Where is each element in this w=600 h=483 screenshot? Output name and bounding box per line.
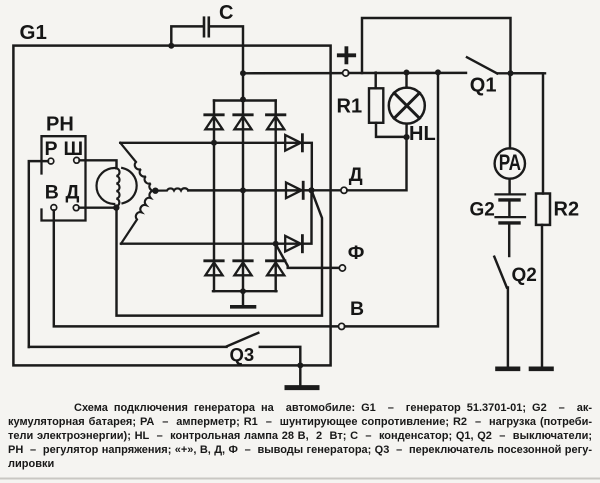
- wire Q3 right segment to ground stem: [260, 347, 301, 366]
- wire to D terminal: [312, 189, 341, 191]
- diode VD6 (horizontal bottom): [285, 190, 311, 252]
- diode VD7 (down row left): [205, 261, 223, 276]
- phase 2 line: [189, 189, 303, 191]
- battery G2 plate short bottom: [500, 221, 519, 224]
- junction Q3 ground on box bottom: [297, 362, 303, 368]
- wire battery to Q2: [508, 225, 510, 256]
- svg-text:Q3: Q3: [230, 344, 255, 365]
- stator winding phase 3 (diagonal coil): [121, 191, 155, 244]
- junction lamp bottom: [403, 134, 409, 140]
- junction at cap left on box top: [168, 43, 174, 49]
- capacitor C plates: [203, 18, 206, 37]
- junction + wire tee: [240, 70, 246, 76]
- svg-text:РА: РА: [499, 151, 521, 176]
- wire plus terminal to R1/HL branch: [349, 72, 466, 75]
- wire R terminal to left and down to Q3: [29, 161, 48, 347]
- svg-text:РН: РН: [46, 113, 74, 135]
- rotor field winding coil: [116, 168, 119, 206]
- stator winding phase 2 (horizontal coil): [156, 188, 189, 190]
- node: additional diodes output to D terminal: [308, 187, 314, 193]
- battery G2 mid lead: [508, 202, 510, 216]
- svg-text:Ш: Ш: [64, 138, 84, 160]
- phase 3 line: [121, 242, 302, 244]
- ground under Q2: [498, 366, 519, 371]
- svg-text:C: C: [219, 2, 233, 24]
- bridge top rail: [214, 99, 276, 101]
- wire V terminal down and right to V generator terminal: [54, 210, 339, 326]
- svg-text:Р: Р: [45, 138, 58, 160]
- regulator RN box: [42, 136, 86, 220]
- junction bottom rail center: [240, 288, 246, 294]
- junction phase1 to column1: [211, 140, 217, 146]
- diode VD4 (horizontal top): [285, 135, 312, 191]
- wire + rail from bridge to plus terminal: [243, 72, 342, 75]
- wire Q2 to ground: [507, 288, 509, 367]
- junction HL branch: [404, 70, 410, 76]
- RN terminal D: [73, 205, 79, 211]
- V terminal circle: [339, 323, 345, 329]
- switch Q3 blade: [227, 333, 258, 347]
- phase 1 line: [120, 142, 301, 144]
- wire Sh terminal to rotor coil top: [80, 160, 117, 168]
- resistor R1 body: [369, 88, 383, 123]
- star point node: [152, 188, 158, 194]
- svg-text:Д: Д: [66, 181, 80, 203]
- capacitor C wire right segment: [210, 26, 243, 73]
- svg-text:Ф: Ф: [348, 242, 365, 264]
- ammeter PA circle: [495, 148, 525, 178]
- svg-text:G1: G1: [20, 21, 47, 44]
- rotor circle right arc: [122, 168, 136, 203]
- ground under R2: [531, 366, 552, 371]
- capacitor C wire left segment: [171, 26, 203, 45]
- resistor R1 leads: [374, 73, 376, 89]
- svg-text:В: В: [45, 181, 59, 203]
- rotor circle left arc: [97, 168, 115, 204]
- wire phase3 tap to F terminal: [276, 245, 339, 268]
- diode VD9 (down row right): [267, 261, 285, 276]
- wire top bypass: [362, 18, 511, 73]
- junction V riser: [435, 69, 441, 75]
- wire HL junction down to D terminal wire: [347, 137, 406, 190]
- junction phase2 to column2: [240, 187, 246, 193]
- switch Q2 blade: [494, 257, 507, 288]
- generator G1 box: [13, 46, 330, 366]
- svg-text:R2: R2: [554, 199, 580, 221]
- diode VD2 (up row middle): [234, 101, 252, 292]
- ground below Q3: [299, 365, 301, 384]
- wire PA to battery: [508, 179, 510, 194]
- junction at bridge top rail: [240, 97, 246, 103]
- RN terminal Sh: [74, 157, 80, 163]
- RN terminal R: [48, 158, 54, 164]
- scan artifact line at bottom: [0, 478, 600, 480]
- wire R2 to ground: [541, 225, 543, 366]
- diode VD1 (up row left): [205, 101, 223, 292]
- lamp HL cross: [394, 93, 419, 118]
- wire down to ammeter PA: [509, 73, 511, 148]
- lamp HL circle: [389, 88, 425, 124]
- diode VD3 (up row right): [267, 101, 285, 292]
- wire Q1 right to junction: [497, 72, 545, 74]
- svg-text:Д: Д: [349, 164, 363, 186]
- RN terminal V: [51, 205, 57, 211]
- wire D-junction loop to rotor (diagonal + down + across + up): [117, 190, 323, 315]
- svg-text:HL: HL: [409, 123, 436, 145]
- stator winding phase 1 (diagonal coil): [120, 143, 155, 191]
- svg-text:G2: G2: [470, 199, 495, 220]
- battery G2 plate long bottom: [496, 216, 526, 218]
- battery G2 plate short top: [500, 198, 519, 201]
- ground of bridge: [242, 291, 244, 305]
- junction Q1 output node: [508, 70, 514, 76]
- plus terminal circle: [343, 70, 349, 76]
- D terminal circle: [341, 187, 347, 193]
- wire bridge top rail riser: [242, 73, 244, 100]
- diode VD5 (horizontal middle): [286, 182, 312, 198]
- rotor bottom junction: [113, 204, 119, 210]
- svg-text:Q2: Q2: [512, 265, 537, 286]
- svg-text:R1: R1: [337, 95, 363, 117]
- junction phase3 to column3: [273, 241, 279, 247]
- svg-text:В: В: [350, 298, 364, 320]
- battery G2 plate long top: [496, 193, 526, 195]
- wire Q3 from riser to switch: [29, 346, 227, 348]
- plus sign label: [339, 48, 354, 62]
- F terminal circle: [339, 265, 345, 271]
- resistor R2 body: [536, 194, 550, 225]
- wire V terminal to riser: [345, 72, 438, 326]
- svg-text:Q1: Q1: [470, 74, 497, 96]
- wire junction to R2: [511, 73, 544, 193]
- wire D terminal of RN to rotor bottom: [79, 206, 116, 208]
- diode VD8 (down row middle): [234, 261, 252, 276]
- bridge bottom rail: [213, 290, 276, 292]
- lamp HL leads: [405, 73, 407, 88]
- switch Q1 blade: [467, 57, 497, 73]
